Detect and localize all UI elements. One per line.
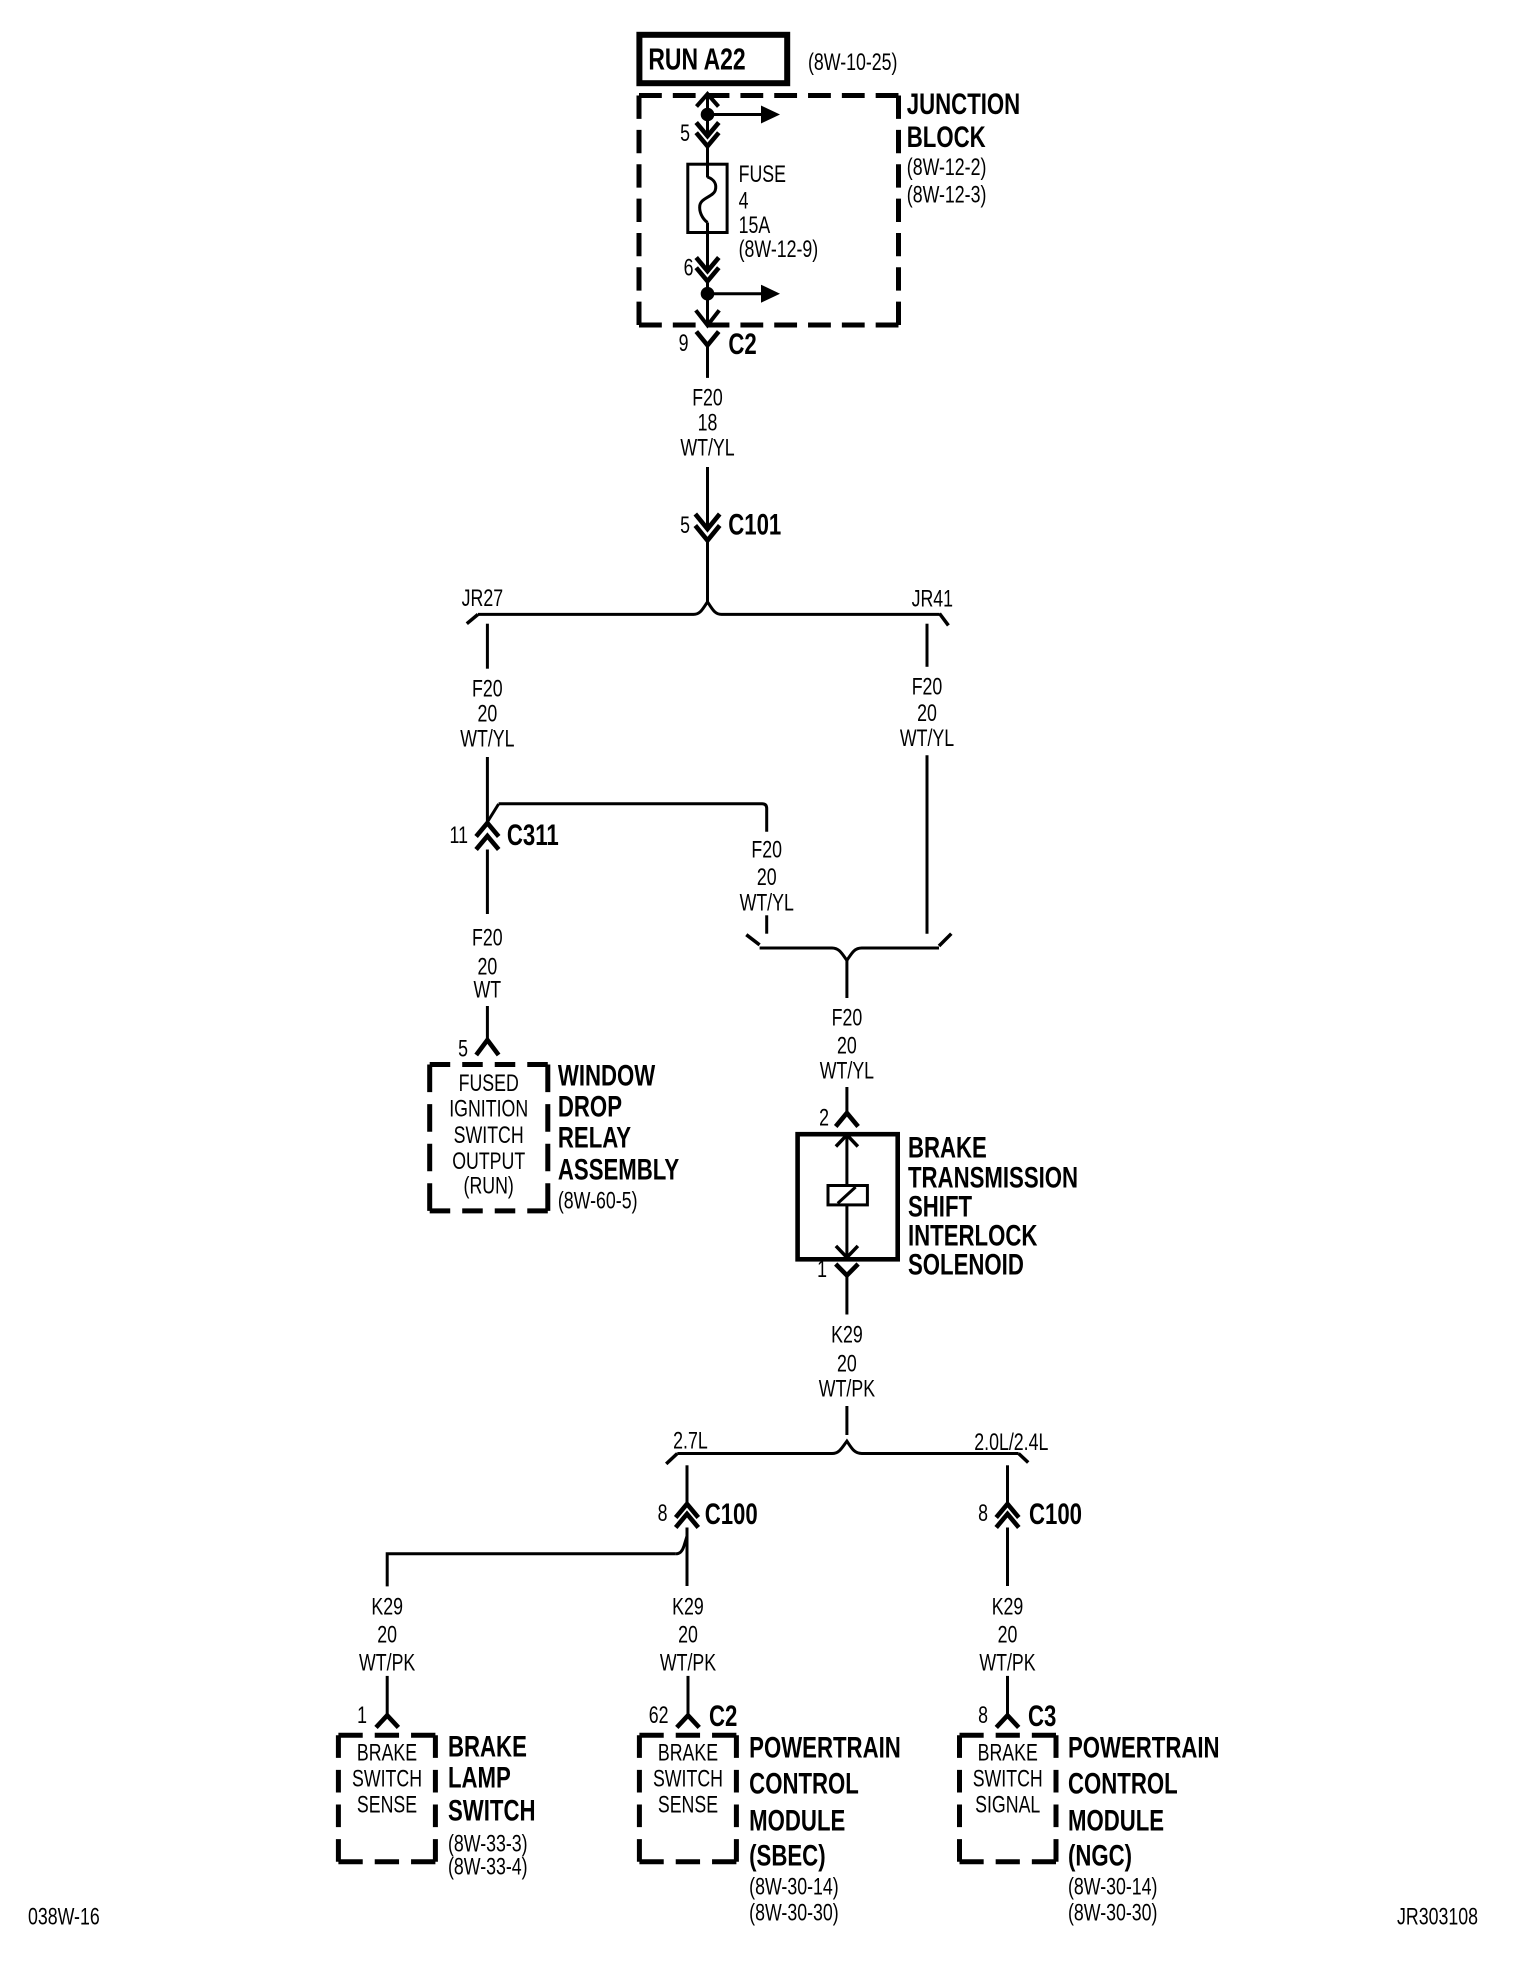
- svg-text:WT: WT: [474, 977, 502, 1003]
- svg-text:K29: K29: [992, 1594, 1024, 1620]
- svg-text:WT/PK: WT/PK: [359, 1650, 415, 1676]
- svg-text:5: 5: [458, 1036, 468, 1062]
- svg-text:(8W-12-9): (8W-12-9): [739, 236, 819, 262]
- svg-text:POWERTRAIN: POWERTRAIN: [1068, 1730, 1220, 1764]
- svg-text:WT/YL: WT/YL: [740, 890, 794, 916]
- svg-text:RUN A22: RUN A22: [648, 41, 745, 76]
- svg-text:F20: F20: [472, 925, 503, 951]
- svg-text:5: 5: [680, 121, 690, 147]
- svg-text:(SBEC): (SBEC): [749, 1838, 825, 1872]
- svg-text:20: 20: [678, 1622, 698, 1648]
- svg-text:DROP: DROP: [558, 1089, 622, 1123]
- svg-text:(RUN): (RUN): [464, 1173, 514, 1199]
- svg-text:C100: C100: [1029, 1497, 1082, 1531]
- svg-text:F20: F20: [751, 837, 782, 863]
- svg-text:(8W-30-30): (8W-30-30): [749, 1900, 838, 1926]
- svg-text:JUNCTION: JUNCTION: [907, 87, 1020, 121]
- svg-text:(8W-12-3): (8W-12-3): [907, 182, 987, 208]
- svg-text:K29: K29: [831, 1322, 863, 1348]
- svg-text:(8W-30-14): (8W-30-14): [1068, 1874, 1157, 1900]
- svg-text:20: 20: [477, 701, 497, 727]
- svg-text:8: 8: [978, 1703, 988, 1729]
- svg-text:SWITCH: SWITCH: [653, 1766, 723, 1792]
- svg-text:CONTROL: CONTROL: [749, 1766, 859, 1800]
- svg-text:4: 4: [739, 188, 749, 214]
- svg-text:FUSE: FUSE: [739, 162, 786, 188]
- svg-text:OUTPUT: OUTPUT: [452, 1149, 525, 1175]
- svg-text:8: 8: [658, 1501, 668, 1527]
- svg-text:C101: C101: [728, 507, 781, 541]
- svg-text:20: 20: [837, 1351, 857, 1377]
- svg-text:BLOCK: BLOCK: [907, 120, 986, 154]
- svg-text:SENSE: SENSE: [658, 1792, 718, 1818]
- svg-text:8: 8: [978, 1501, 988, 1527]
- svg-text:11: 11: [450, 823, 468, 849]
- svg-text:20: 20: [998, 1622, 1018, 1648]
- svg-text:(8W-30-30): (8W-30-30): [1068, 1900, 1157, 1926]
- svg-text:6: 6: [684, 255, 694, 281]
- svg-text:SOLENOID: SOLENOID: [908, 1247, 1024, 1281]
- svg-text:SWITCH: SWITCH: [448, 1793, 536, 1827]
- svg-text:LAMP: LAMP: [448, 1760, 511, 1794]
- svg-text:038W-16: 038W-16: [28, 1904, 100, 1930]
- svg-text:JR27: JR27: [462, 586, 503, 612]
- svg-text:F20: F20: [692, 385, 723, 411]
- svg-text:(8W-33-4): (8W-33-4): [448, 1854, 528, 1880]
- svg-text:20: 20: [917, 701, 937, 727]
- svg-text:BRAKE: BRAKE: [908, 1130, 987, 1164]
- svg-text:5: 5: [680, 513, 690, 539]
- svg-text:20: 20: [757, 864, 777, 890]
- svg-text:(8W-12-2): (8W-12-2): [907, 154, 987, 180]
- svg-text:SWITCH: SWITCH: [454, 1122, 524, 1148]
- svg-text:15A: 15A: [739, 213, 771, 239]
- svg-text:20: 20: [837, 1033, 857, 1059]
- svg-text:2.0L/2.4L: 2.0L/2.4L: [974, 1430, 1048, 1456]
- svg-text:SENSE: SENSE: [357, 1792, 417, 1818]
- svg-text:WT/PK: WT/PK: [979, 1650, 1035, 1676]
- svg-text:62: 62: [649, 1703, 669, 1729]
- svg-text:ASSEMBLY: ASSEMBLY: [558, 1152, 680, 1186]
- svg-text:MODULE: MODULE: [1068, 1803, 1164, 1837]
- svg-text:C311: C311: [507, 818, 559, 852]
- svg-text:C3: C3: [1028, 1699, 1056, 1733]
- svg-text:(NGC): (NGC): [1068, 1838, 1132, 1872]
- svg-text:WT/YL: WT/YL: [680, 435, 734, 461]
- svg-text:JR303108: JR303108: [1397, 1904, 1478, 1930]
- svg-text:F20: F20: [912, 674, 943, 700]
- svg-text:WT/PK: WT/PK: [819, 1376, 875, 1402]
- svg-text:1: 1: [817, 1257, 827, 1283]
- svg-text:JR41: JR41: [912, 586, 953, 612]
- svg-text:POWERTRAIN: POWERTRAIN: [749, 1730, 901, 1764]
- svg-text:K29: K29: [371, 1594, 403, 1620]
- svg-text:SIGNAL: SIGNAL: [975, 1792, 1040, 1818]
- svg-text:1: 1: [357, 1703, 367, 1729]
- svg-text:(8W-10-25): (8W-10-25): [808, 50, 897, 76]
- svg-text:F20: F20: [832, 1005, 863, 1031]
- svg-text:K29: K29: [672, 1594, 704, 1620]
- svg-text:20: 20: [377, 1622, 397, 1648]
- svg-text:C2: C2: [709, 1699, 737, 1733]
- svg-text:SWITCH: SWITCH: [973, 1766, 1043, 1792]
- svg-text:WT/YL: WT/YL: [820, 1058, 874, 1084]
- svg-text:9: 9: [679, 331, 689, 357]
- svg-text:RELAY: RELAY: [558, 1120, 632, 1154]
- svg-text:(8W-60-5): (8W-60-5): [558, 1188, 638, 1214]
- svg-text:CONTROL: CONTROL: [1068, 1766, 1178, 1800]
- svg-text:WINDOW: WINDOW: [558, 1058, 655, 1092]
- svg-text:WT/PK: WT/PK: [660, 1650, 716, 1676]
- svg-text:FUSED: FUSED: [459, 1070, 519, 1096]
- svg-text:BRAKE: BRAKE: [448, 1729, 527, 1763]
- svg-text:(8W-30-14): (8W-30-14): [749, 1874, 838, 1900]
- svg-text:C2: C2: [728, 327, 756, 361]
- svg-text:BRAKE: BRAKE: [658, 1740, 718, 1766]
- svg-text:SWITCH: SWITCH: [352, 1766, 422, 1792]
- svg-text:C100: C100: [705, 1497, 758, 1531]
- svg-text:IGNITION: IGNITION: [449, 1096, 528, 1122]
- svg-text:F20: F20: [472, 676, 503, 702]
- svg-text:WT/YL: WT/YL: [900, 726, 954, 752]
- svg-text:2: 2: [819, 1105, 829, 1131]
- svg-text:WT/YL: WT/YL: [460, 726, 514, 752]
- svg-text:MODULE: MODULE: [749, 1803, 845, 1837]
- svg-text:2.7L: 2.7L: [673, 1428, 708, 1454]
- svg-text:BRAKE: BRAKE: [357, 1740, 417, 1766]
- svg-text:BRAKE: BRAKE: [978, 1740, 1038, 1766]
- svg-text:18: 18: [698, 410, 718, 436]
